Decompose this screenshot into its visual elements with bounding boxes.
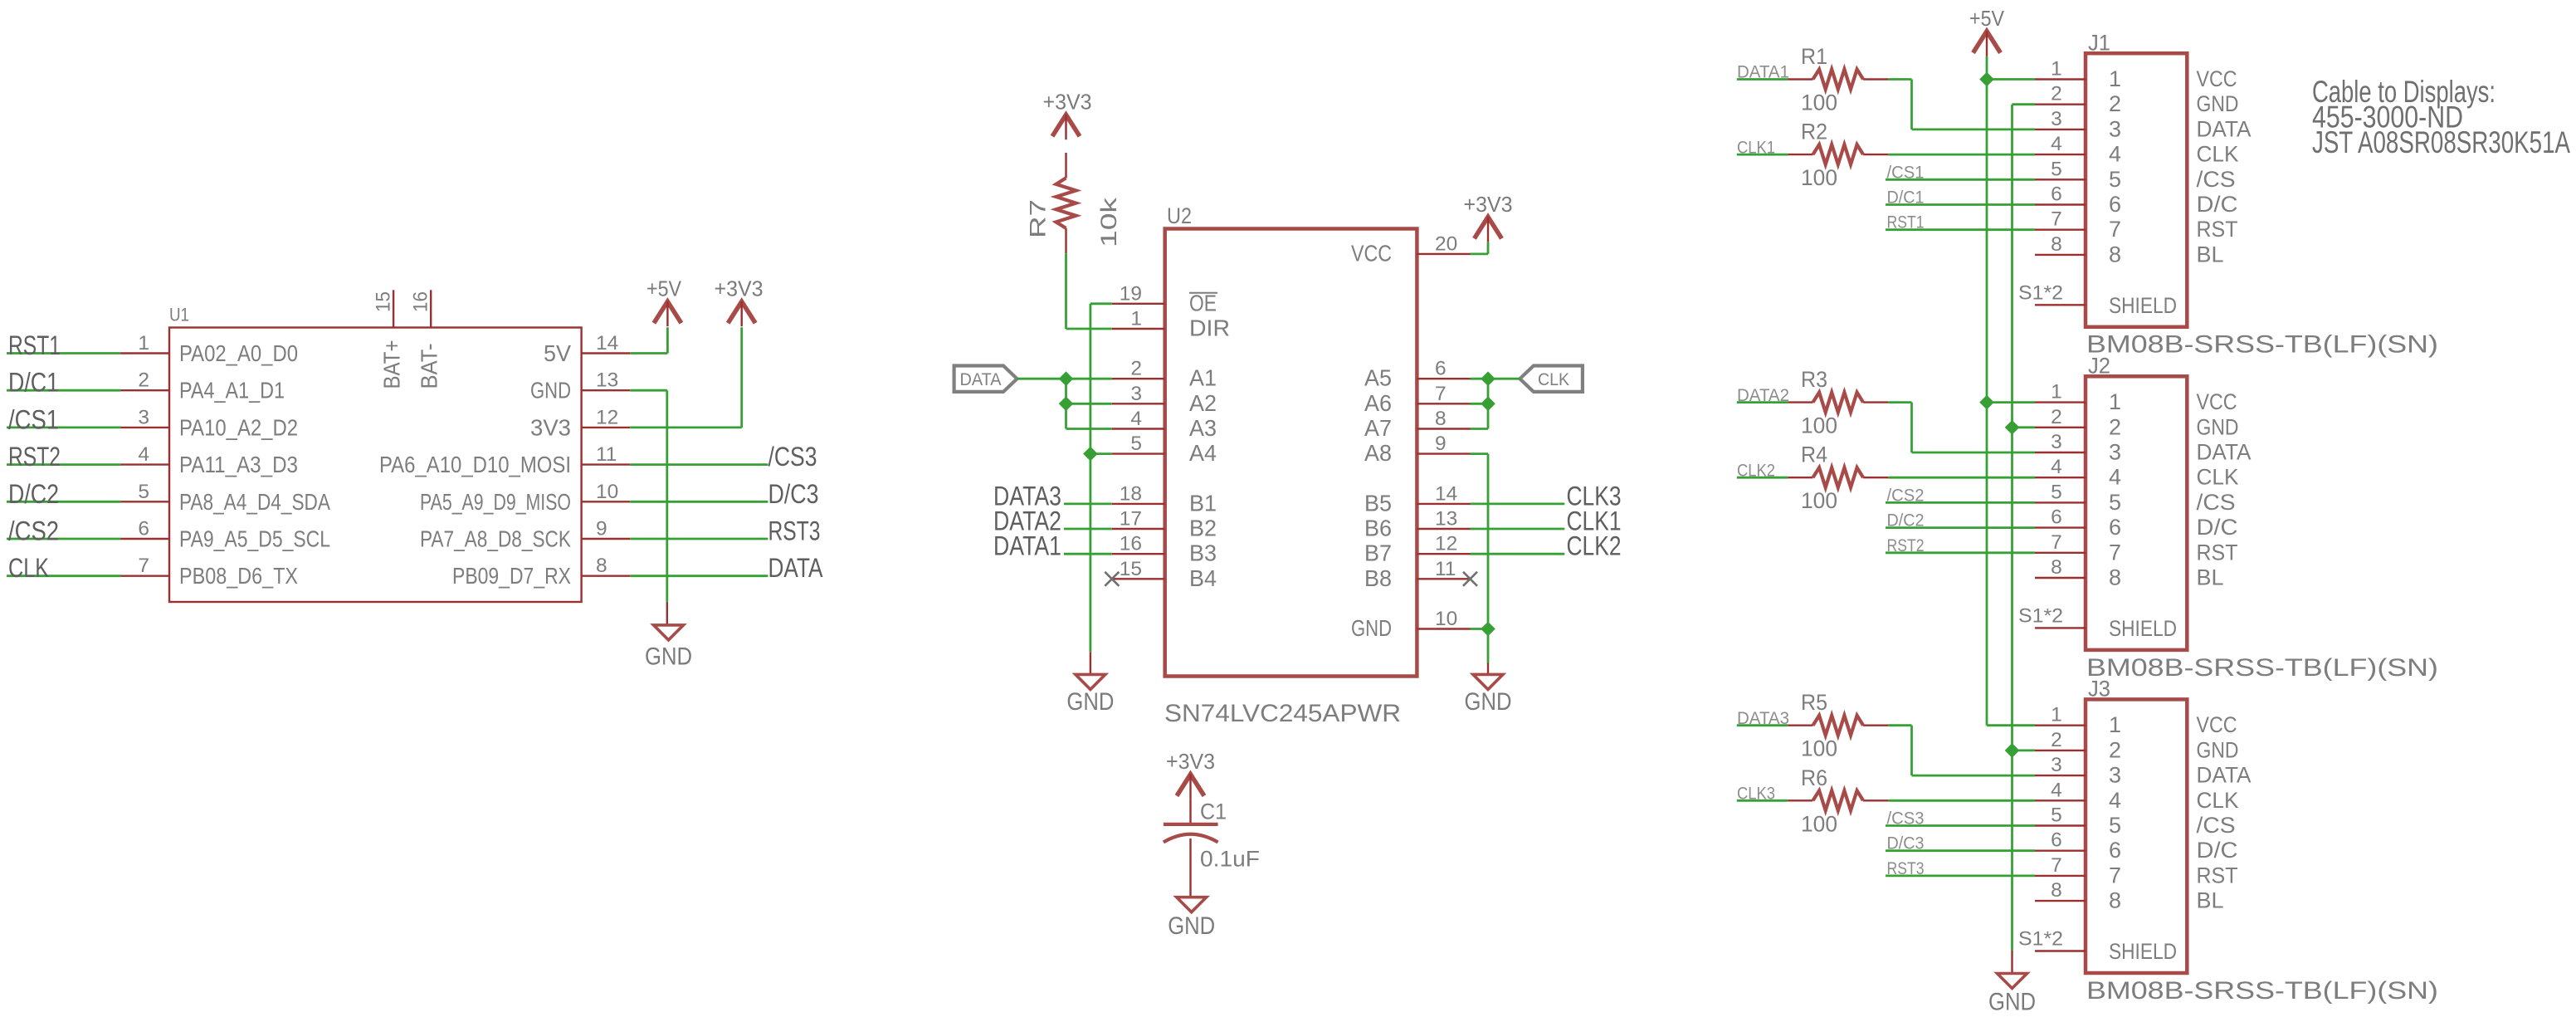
svg-text:PA6_A10_D10_MOSI: PA6_A10_D10_MOSI	[379, 452, 571, 477]
svg-text:R3: R3	[1801, 367, 1827, 392]
U1 pin 5 (('PA8_A4_D4_SDA', 182))	[121, 481, 170, 503]
svg-text:GND: GND	[1465, 688, 1512, 716]
svg-text:2: 2	[2109, 414, 2121, 439]
svg-text:11: 11	[1435, 558, 1456, 580]
J3 pin 4	[2035, 779, 2086, 801]
J3 pin S1*2 (SHIELD)	[2018, 928, 2086, 951]
U1 pin 16 (BAT-)	[410, 290, 442, 389]
svg-text:2: 2	[1130, 358, 1142, 380]
svg-text:100: 100	[1801, 165, 1837, 190]
wire R5 to J3 pin 3	[1888, 726, 2035, 775]
svg-text:CLK: CLK	[8, 553, 49, 583]
U1 pin 6 (('PA9_A5_D5_SCL', 182))	[121, 518, 170, 540]
junction node GND J3	[2005, 743, 2020, 758]
svg-text:2: 2	[2109, 737, 2121, 762]
svg-text:16: 16	[410, 291, 432, 312]
svg-text:R4: R4	[1801, 442, 1827, 467]
U1 pin 3 (('PA10_A2_D2', 143))	[121, 406, 170, 428]
U2 pin 18	[1112, 482, 1165, 505]
net tag CLK	[1520, 366, 1583, 392]
J3 pin 1	[2035, 704, 2086, 726]
svg-text:JST A08SR08SR30K51A: JST A08SR08SR30K51A	[2312, 125, 2570, 159]
svg-text:10: 10	[1435, 608, 1457, 630]
svg-text:100: 100	[1801, 90, 1837, 115]
J3 pin 8	[2035, 879, 2086, 902]
svg-text:B2: B2	[1189, 516, 1217, 541]
wire net RST2 to U1 pin 4	[7, 463, 121, 466]
svg-text:+3V3: +3V3	[1043, 90, 1092, 115]
J2 pin 6	[2035, 506, 2086, 529]
svg-text:15: 15	[1120, 558, 1142, 580]
J1 pin 1	[2035, 58, 2086, 81]
J1 pin 8	[2035, 233, 2086, 256]
U2 pin 10	[1417, 608, 1470, 630]
svg-text:R1: R1	[1801, 44, 1827, 69]
svg-text:DATA: DATA	[2197, 763, 2252, 788]
J2 pin 4	[2035, 456, 2086, 478]
svg-text:5: 5	[138, 481, 149, 503]
wire GND rail	[2011, 105, 2013, 974]
svg-text:J1: J1	[2088, 31, 2110, 56]
J3 pin 7	[2035, 854, 2086, 877]
svg-text:/CS3: /CS3	[768, 442, 817, 472]
svg-text:B1: B1	[1189, 490, 1217, 516]
net tag DATA	[954, 366, 1017, 392]
svg-text:CLK: CLK	[1538, 370, 1569, 389]
U1 pin 4 (('PA11_A3_D3', 143))	[121, 443, 170, 466]
svg-text:3: 3	[2109, 763, 2121, 788]
svg-text:PB09_D7_RX: PB09_D7_RX	[452, 563, 571, 589]
wire net /CS1 to U1 pin 3	[7, 427, 121, 429]
ground (U2 right)	[1465, 674, 1512, 716]
svg-text:SHIELD: SHIELD	[2109, 939, 2177, 964]
svg-text:A5: A5	[1364, 365, 1392, 391]
supply +5V (J connectors)	[1969, 6, 2005, 56]
wire DATA2	[1737, 401, 1788, 403]
svg-text:BM08B-SRSS-TB(LF)(SN): BM08B-SRSS-TB(LF)(SN)	[2086, 331, 2438, 359]
svg-text:9: 9	[1435, 433, 1447, 455]
svg-text:RST2: RST2	[8, 442, 61, 472]
svg-text:J2: J2	[2088, 354, 2110, 379]
svg-text:R7: R7	[1026, 199, 1051, 238]
svg-text:+5V: +5V	[646, 276, 682, 301]
svg-text:VCC: VCC	[2197, 712, 2237, 737]
svg-text:BM08B-SRSS-TB(LF)(SN): BM08B-SRSS-TB(LF)(SN)	[2086, 977, 2438, 1005]
supply +5V (U1)	[646, 276, 682, 327]
svg-text:GND: GND	[2197, 737, 2239, 762]
U2 pin 16	[1112, 533, 1165, 555]
svg-text:RST: RST	[2197, 863, 2238, 887]
svg-text:13: 13	[1435, 508, 1457, 531]
svg-text:OE: OE	[1189, 290, 1217, 315]
svg-text:A7: A7	[1364, 415, 1392, 441]
svg-text:5: 5	[2109, 813, 2121, 838]
svg-text:PA11_A3_D3: PA11_A3_D3	[179, 452, 298, 477]
J3 pin 5	[2035, 804, 2086, 827]
svg-text:DATA1: DATA1	[993, 531, 1061, 561]
svg-text:B5: B5	[1364, 490, 1392, 516]
svg-text:DIR: DIR	[1189, 315, 1230, 341]
svg-text:1: 1	[1130, 308, 1142, 330]
svg-text:PB08_D6_TX: PB08_D6_TX	[179, 563, 298, 589]
svg-text:4: 4	[138, 443, 149, 466]
svg-text:10: 10	[596, 481, 618, 503]
wire net D/C2 to U1 pin 5	[7, 501, 121, 503]
U1 pin 11 (('PA6_A10_D10_MOSI', 231))	[582, 443, 631, 466]
svg-text:4: 4	[2051, 456, 2062, 478]
junction node DATA/A2	[1059, 397, 1074, 412]
wire R4 to J2 pin 4	[1888, 477, 2035, 479]
svg-text:7: 7	[2051, 854, 2062, 877]
svg-text:6: 6	[1435, 358, 1447, 380]
wire A8/GND to ground	[1471, 454, 1489, 675]
svg-text:19: 19	[1120, 282, 1142, 305]
svg-text:7: 7	[2109, 217, 2121, 242]
resistor R7	[1026, 153, 1122, 253]
wire R1 to J1 pin 3	[1888, 80, 2035, 130]
microcontroller U1	[169, 305, 582, 603]
no-connect B8 pin 11	[1463, 572, 1477, 586]
svg-text:8: 8	[2051, 879, 2062, 902]
junction node +5V J1	[1979, 72, 1994, 87]
svg-text:4: 4	[2109, 142, 2121, 167]
svg-text:14: 14	[596, 332, 618, 354]
U1 pin 7 (('PB08_D6_TX', 143))	[121, 555, 170, 577]
wire R7 to DIR	[1066, 253, 1112, 329]
svg-text:100: 100	[1801, 811, 1837, 836]
U2 pin 20	[1417, 232, 1470, 255]
wire R3 to J2 pin 3	[1888, 403, 2035, 452]
svg-text:A8: A8	[1364, 440, 1392, 466]
svg-text:7: 7	[138, 555, 149, 577]
buffer U2 SN74LVC245APWR	[1164, 203, 1417, 727]
svg-text:CLK2: CLK2	[1567, 531, 1622, 561]
svg-text:BL: BL	[2197, 888, 2224, 913]
svg-text:GND: GND	[645, 643, 692, 671]
svg-text:3: 3	[138, 406, 149, 428]
J3 pin 3	[2035, 754, 2086, 776]
wire net CLK2 from U2	[1471, 553, 1565, 555]
U2 pin 19	[1112, 282, 1165, 305]
svg-text:4: 4	[1130, 408, 1142, 430]
supply +3V3 (U1)	[715, 276, 764, 327]
U2 pin 12	[1417, 533, 1470, 555]
U2 pin 11	[1417, 558, 1470, 580]
connector J3 BM08B-SRSS-TB	[2086, 677, 2438, 1005]
wire net RST3 from U1	[630, 538, 768, 540]
resistor R2 100	[1788, 120, 1888, 191]
svg-text:PA7_A8_D8_SCK: PA7_A8_D8_SCK	[420, 526, 571, 552]
wire +5V to J2 pin 1	[1987, 401, 2035, 403]
svg-text:2: 2	[2109, 91, 2121, 116]
svg-text:8: 8	[2109, 888, 2121, 913]
J2 pin 1	[2035, 381, 2086, 403]
U1 pin 14 (('5V', 33))	[582, 332, 631, 354]
svg-text:/CS1: /CS1	[8, 404, 59, 434]
svg-text:6: 6	[2051, 506, 2062, 529]
J1 pin 2	[2035, 83, 2086, 105]
svg-text:GND: GND	[1351, 615, 1392, 641]
svg-text:B8: B8	[1364, 565, 1392, 591]
svg-text:7: 7	[2051, 531, 2062, 554]
svg-text:RST: RST	[2197, 217, 2238, 242]
svg-text:J3: J3	[2088, 677, 2110, 702]
svg-text:8: 8	[2109, 565, 2121, 590]
svg-text:17: 17	[1120, 508, 1142, 531]
wire GND to J1 pin 2	[2013, 103, 2036, 105]
svg-text:9: 9	[596, 518, 607, 540]
svg-text:VCC: VCC	[1351, 240, 1392, 266]
svg-text:RST: RST	[2197, 540, 2238, 565]
wire RST3 to J3 pin 7	[1886, 875, 2035, 878]
wire net DATA from U1	[630, 575, 768, 577]
svg-text:D/C1: D/C1	[8, 368, 59, 398]
wire OE/A4 to ground	[1090, 304, 1112, 675]
svg-text:DATA: DATA	[960, 370, 1002, 389]
wire net DATA3 to U2	[1064, 503, 1112, 506]
J2 pin 7	[2035, 531, 2086, 554]
svg-text:BAT-: BAT-	[417, 344, 442, 389]
junction node A4/GND	[1083, 447, 1098, 462]
svg-text:7: 7	[2109, 540, 2121, 565]
svg-text:7: 7	[2109, 863, 2121, 887]
J3 pin 6	[2035, 829, 2086, 852]
svg-text:PA9_A5_D5_SCL: PA9_A5_D5_SCL	[179, 526, 330, 552]
svg-text:3: 3	[2051, 754, 2062, 776]
ground (J connectors)	[1988, 974, 2036, 1016]
svg-text:3: 3	[2109, 440, 2121, 465]
svg-text:8: 8	[1435, 408, 1447, 430]
svg-text:6: 6	[2109, 192, 2121, 217]
svg-text:U1: U1	[169, 305, 189, 325]
svg-text:6: 6	[138, 518, 149, 540]
svg-text:SHIELD: SHIELD	[2109, 293, 2177, 318]
J1 pin 3	[2035, 108, 2086, 130]
svg-text:GND: GND	[1066, 688, 1114, 716]
svg-text:PA4_A1_D1: PA4_A1_D1	[179, 378, 285, 403]
wire CLK3	[1737, 799, 1788, 802]
wire /CS2 to J2 pin 5	[1886, 501, 2035, 504]
svg-text:4: 4	[2109, 788, 2121, 813]
junction node +5V J2	[1979, 395, 1994, 410]
ground (C1)	[1168, 897, 1215, 940]
U2 pin 17	[1112, 508, 1165, 531]
ground (U1)	[645, 625, 692, 671]
svg-text:5: 5	[2109, 167, 2121, 192]
J2 pin 2	[2035, 406, 2086, 428]
svg-text:1: 1	[2051, 704, 2062, 726]
U2 pin 13	[1417, 508, 1470, 531]
svg-text:VCC: VCC	[2197, 389, 2237, 414]
J1 pin S1*2 (SHIELD)	[2018, 281, 2086, 305]
no-connect B4 pin 15	[1105, 572, 1119, 586]
svg-text:GND: GND	[2197, 414, 2239, 439]
wire D/C1 to J1 pin 6	[1886, 203, 2035, 206]
supply +3V3 (C1)	[1166, 749, 1215, 799]
svg-text:A2: A2	[1189, 390, 1217, 416]
J1 pin 6	[2035, 183, 2086, 206]
wire net DATA2 to U2	[1064, 528, 1112, 531]
svg-text:6: 6	[2109, 838, 2121, 863]
svg-text:BL: BL	[2197, 565, 2224, 590]
svg-text:2: 2	[2051, 406, 2062, 428]
svg-text:R2: R2	[1801, 120, 1827, 144]
U2 pin 1	[1112, 308, 1165, 330]
svg-text:SHIELD: SHIELD	[2109, 616, 2177, 641]
wire CLK to A5 A6 A7	[1471, 379, 1520, 428]
wire net CLK1 from U2	[1471, 528, 1565, 531]
resistor R3 100	[1788, 367, 1888, 438]
U1 pin 8 (('PB09_D7_RX', 143))	[582, 555, 631, 577]
svg-text:CLK: CLK	[2197, 788, 2239, 813]
svg-text:5: 5	[1130, 433, 1142, 455]
svg-text:12: 12	[1435, 533, 1457, 555]
wire net D/C1 to U1 pin 2	[7, 389, 121, 392]
svg-text:D/C: D/C	[2197, 838, 2238, 863]
svg-text:1: 1	[2109, 712, 2121, 737]
supply +3V3 (R7)	[1043, 90, 1092, 140]
svg-text:8: 8	[2051, 556, 2062, 579]
svg-text:+5V: +5V	[1969, 6, 2005, 31]
svg-text:3: 3	[2051, 431, 2062, 453]
svg-text:/CS2: /CS2	[8, 516, 59, 546]
wire DATA to A1 A2 A3	[1017, 379, 1112, 428]
svg-text:S1*2: S1*2	[2018, 604, 2063, 627]
resistor R4 100	[1788, 442, 1888, 514]
svg-text:18: 18	[1120, 482, 1142, 505]
svg-text:0.1uF: 0.1uF	[1200, 847, 1260, 872]
svg-text:6: 6	[2109, 515, 2121, 540]
resistor R1 100	[1788, 44, 1888, 115]
svg-text:2: 2	[2051, 83, 2062, 105]
svg-text:8: 8	[596, 555, 607, 577]
wire GND net (U1)	[630, 390, 667, 625]
svg-text:4: 4	[2109, 465, 2121, 490]
svg-text:BL: BL	[2197, 242, 2224, 266]
svg-text:R6: R6	[1801, 765, 1827, 790]
U1 pin 1 (('PA02_A0_D0', 143))	[121, 332, 170, 354]
svg-text:A4: A4	[1189, 440, 1217, 466]
svg-text:VCC: VCC	[2197, 66, 2237, 91]
svg-text:4: 4	[2051, 779, 2062, 801]
svg-text:GND: GND	[530, 378, 571, 403]
U2 pin 15	[1112, 558, 1165, 580]
svg-text:6: 6	[2051, 183, 2062, 206]
U2 pin 2	[1112, 358, 1165, 380]
svg-text:5V: 5V	[544, 340, 571, 366]
wire net /CS2 to U1 pin 6	[7, 538, 121, 540]
U1 pin 13 (('GND', 49))	[582, 369, 631, 392]
svg-text:7: 7	[1435, 383, 1447, 405]
J3 pin 2	[2035, 729, 2086, 751]
svg-text:20: 20	[1435, 232, 1457, 255]
svg-text:5: 5	[2051, 158, 2062, 180]
svg-text:6: 6	[2051, 829, 2062, 852]
svg-text:PA02_A0_D0: PA02_A0_D0	[179, 340, 298, 366]
junction node DATA/A1	[1059, 371, 1074, 386]
wire net RST1 to U1 pin 1	[7, 352, 121, 354]
wire R6 to J3 pin 4	[1888, 799, 2035, 802]
svg-text:PA10_A2_D2: PA10_A2_D2	[179, 414, 298, 440]
svg-text:11: 11	[596, 443, 617, 466]
svg-text:8: 8	[2051, 233, 2062, 256]
U2 pin 9	[1417, 433, 1470, 455]
J2 pin 3	[2035, 431, 2086, 453]
svg-text:PA5_A9_D9_MISO: PA5_A9_D9_MISO	[420, 489, 571, 515]
svg-text:100: 100	[1801, 736, 1837, 761]
U2 pin 14	[1417, 482, 1470, 505]
junction node CLK/A5	[1481, 371, 1495, 386]
junction node GND J2	[2005, 420, 2020, 435]
svg-text:5: 5	[2051, 481, 2062, 503]
connector J1 BM08B-SRSS-TB	[2086, 31, 2438, 359]
U2 pin 3	[1112, 383, 1165, 405]
svg-text:CLK: CLK	[2197, 142, 2239, 167]
wire RST1 to J1 pin 7	[1886, 228, 2035, 231]
svg-text:U2: U2	[1167, 203, 1192, 228]
svg-text:7: 7	[2051, 208, 2062, 231]
wire +5V rail	[1986, 56, 1988, 726]
wire R2 to J1 pin 4	[1888, 154, 2035, 156]
svg-text:D/C2: D/C2	[8, 479, 59, 509]
svg-text:1: 1	[138, 332, 149, 354]
svg-text:RST1: RST1	[8, 330, 61, 360]
svg-text:1: 1	[2051, 381, 2062, 403]
svg-text:4: 4	[2051, 133, 2062, 155]
svg-text:D/C3: D/C3	[768, 479, 819, 509]
svg-text:/CS: /CS	[2197, 490, 2236, 515]
svg-text:2: 2	[138, 369, 149, 392]
svg-text:3: 3	[1130, 383, 1142, 405]
svg-text:5: 5	[2051, 804, 2062, 827]
U1 pin 10 (('PA5_A9_D9_MISO', 182))	[582, 481, 631, 503]
svg-text:8: 8	[2109, 242, 2121, 266]
svg-text:1: 1	[2051, 58, 2062, 81]
wire 5V net	[630, 327, 667, 353]
svg-text:BAT+: BAT+	[379, 340, 405, 389]
svg-text:SN74LVC245APWR: SN74LVC245APWR	[1164, 700, 1401, 727]
svg-text:B4: B4	[1189, 565, 1217, 591]
U2 pin 8	[1417, 408, 1470, 430]
resistor R5 100	[1788, 690, 1888, 761]
svg-text:3V3: 3V3	[530, 414, 571, 440]
svg-text:/CS: /CS	[2197, 167, 2236, 192]
wire /CS3 to J3 pin 5	[1886, 824, 2035, 827]
svg-text:C1: C1	[1200, 799, 1227, 824]
svg-text:PA8_A4_D4_SDA: PA8_A4_D4_SDA	[179, 489, 330, 515]
ground (U2 left)	[1066, 674, 1114, 716]
note cable to displays	[2312, 75, 2570, 159]
svg-text:1: 1	[2109, 389, 2121, 414]
wire D/C2 to J2 pin 6	[1886, 526, 2035, 529]
junction node CLK/A6	[1481, 397, 1495, 412]
connector J2 BM08B-SRSS-TB	[2086, 354, 2438, 682]
svg-text:13: 13	[596, 369, 618, 392]
junction node GND pin10	[1481, 622, 1495, 637]
svg-text:S1*2: S1*2	[2018, 928, 2063, 951]
wire net DATA1 to U2	[1064, 553, 1112, 555]
wire net CLK3 from U2	[1471, 503, 1565, 506]
wire RST2 to J2 pin 7	[1886, 551, 2035, 554]
svg-text:DATA: DATA	[2197, 440, 2252, 465]
svg-text:3: 3	[2051, 108, 2062, 130]
wire +5V to J3 pin 1	[1987, 724, 2035, 726]
U1 pin 2 (('PA4_A1_D1', 127))	[121, 369, 170, 392]
svg-text:B6: B6	[1364, 516, 1392, 541]
svg-text:D/C: D/C	[2197, 192, 2238, 217]
svg-text:A6: A6	[1364, 390, 1392, 416]
wire 3V3 net	[630, 327, 741, 428]
